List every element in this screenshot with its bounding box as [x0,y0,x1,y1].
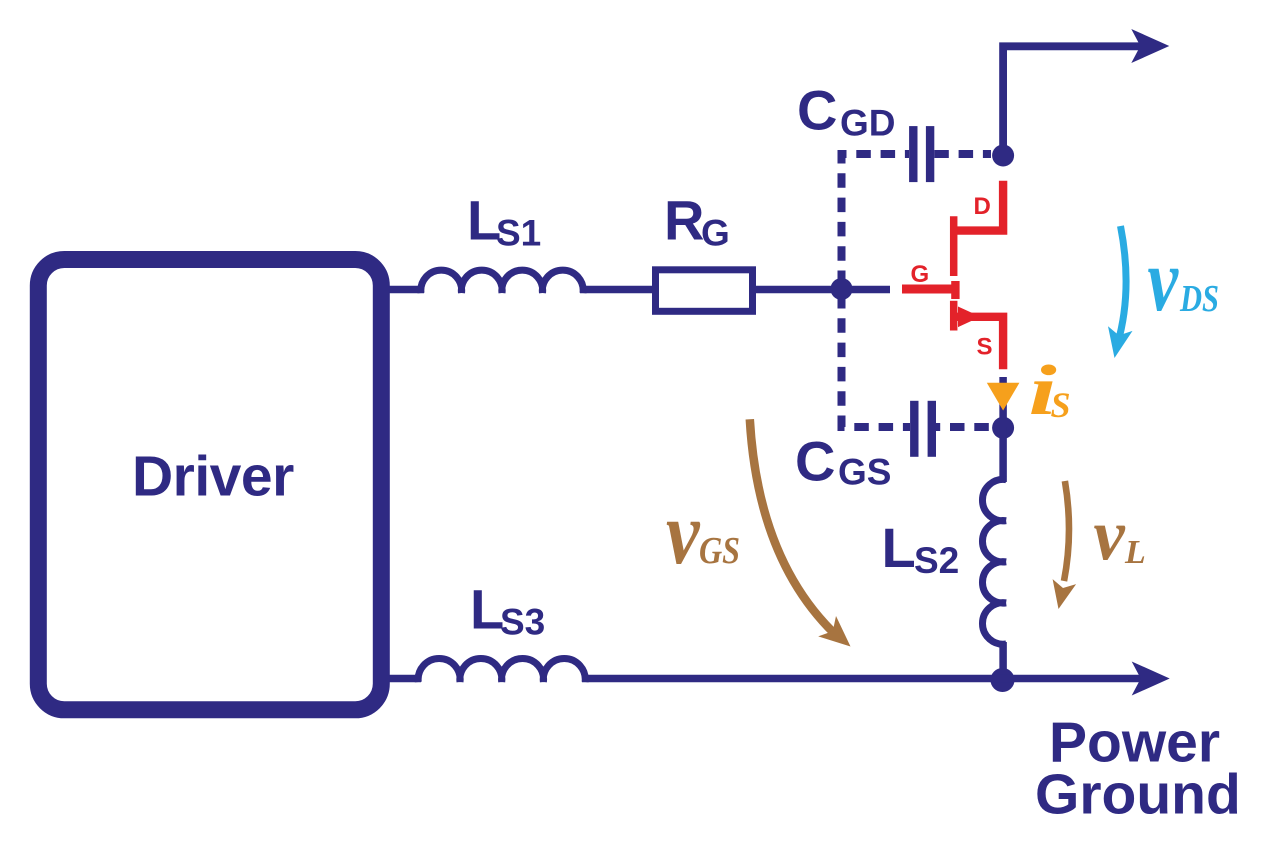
inductor LS2 [982,479,1006,644]
arrow vDS (cyan) [1118,226,1127,344]
wire: source stub to source node [999,377,1007,427]
wire: bottom rail to arrow [582,675,1143,683]
svg-text:L: L [1124,534,1146,571]
inductor LS1 [421,270,583,293]
svg-text:D: D [974,193,991,220]
wire: source node to LS2 [999,427,1007,482]
wire: LS2 to ground node [999,642,1007,678]
svg-text:S: S [1051,385,1071,425]
svg-text:S3: S3 [500,601,545,642]
arrowhead top (drain out) [1131,29,1169,63]
MOSFET Q1: drain channel bar [950,216,958,276]
wire: drain node to top arrow [1003,46,1143,152]
current arrow iS (orange) [987,383,1020,411]
wire: LS1 to RG [580,286,655,294]
MOSFET Q1: source channel bar [950,301,958,331]
svg-text:G: G [911,261,930,288]
node gate junction [831,278,853,300]
svg-text:C: C [797,78,837,141]
svg-text:S1: S1 [496,213,541,254]
resistor RG [656,270,753,312]
dashed net: CGS to source node [935,423,992,431]
capacitor CGS [910,401,918,457]
svg-text:v: v [1094,494,1126,576]
MOSFET Q1: source arrow [958,307,981,328]
svg-text:v: v [666,483,701,583]
svg-text:v: v [1148,231,1180,330]
inductor LS3 [418,658,585,682]
svg-text:C: C [795,430,835,493]
capacitor CGD [909,126,917,182]
dashed net: gate node to CGS [842,294,911,427]
dashed net: gate node to CGD [842,154,910,285]
svg-text:S: S [977,334,993,361]
wire: driver to LS1 [388,286,424,294]
svg-text:R: R [664,189,704,252]
MOSFET Q1: drain lead [954,181,1003,231]
wire: RG to gate stub [756,286,890,294]
node ground [991,668,1015,692]
node drain [992,145,1014,167]
svg-text:Driver: Driver [132,445,294,509]
svg-text:GS: GS [699,530,740,572]
dashed net: CGD to drain node [934,150,991,158]
arrowhead bottom (power ground out) [1132,662,1170,696]
arrow vGS (brown) [750,419,838,637]
MOSFET Q1: gate lead [902,285,952,294]
MOSFET Q1: gate bar [951,281,959,299]
svg-text:Ground: Ground [1035,763,1241,827]
node source [992,417,1014,439]
svg-text:DS: DS [1179,278,1219,320]
svg-text:G: G [701,213,730,254]
wire: bottom rail from driver [388,675,421,683]
svg-text:L: L [882,516,916,579]
svg-text:GD: GD [840,103,896,144]
MOSFET Q1: source lead [954,317,1003,370]
arrow vL (brown) [1064,481,1069,581]
svg-text:S2: S2 [914,540,959,581]
svg-text:GS: GS [838,452,891,493]
driver box U1 [38,260,381,710]
